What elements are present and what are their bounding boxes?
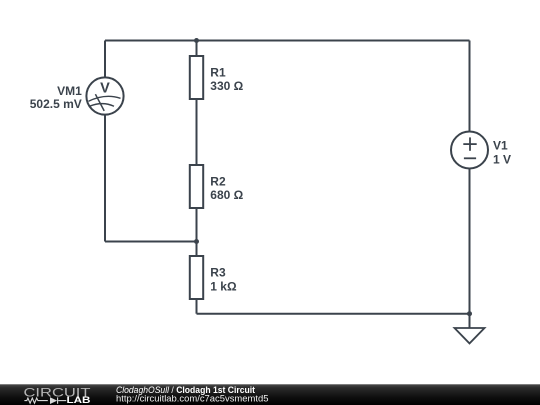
wire bottom-left horizontal to node B	[105, 241, 197, 243]
CircuitLab logo diode triangle	[50, 397, 57, 404]
wire bottom horizontal	[197, 313, 470, 315]
svg-text:330 Ω: 330 Ω	[210, 79, 243, 93]
resistor R3	[190, 256, 203, 299]
node GND junction dot bottom right	[467, 311, 472, 316]
svg-text:R1: R1	[210, 66, 226, 80]
svg-text:680 Ω: 680 Ω	[210, 188, 243, 202]
svg-text:R2: R2	[210, 175, 226, 189]
svg-text:http://circuitlab.com/c7ac5vsm: http://circuitlab.com/c7ac5vsmemtd5	[116, 393, 269, 404]
voltage source V1	[451, 132, 488, 169]
CircuitLab logo resistor-diode line	[24, 397, 66, 403]
svg-text:R3: R3	[210, 266, 226, 280]
svg-text:LAB: LAB	[67, 395, 91, 405]
resistor R1	[190, 56, 203, 99]
svg-text:VM1: VM1	[57, 84, 82, 98]
svg-text:V: V	[100, 81, 110, 97]
svg-text:V1: V1	[493, 138, 508, 152]
wire VM1 top vertical	[104, 41, 106, 78]
ground	[455, 328, 485, 343]
wire V1 top vertical	[469, 41, 471, 132]
node A junction dot top	[194, 38, 199, 43]
wire R1 to R2	[196, 99, 198, 165]
footer bar	[0, 384, 540, 405]
wire R3 bottom vertical	[196, 299, 198, 314]
svg-text:1 kΩ: 1 kΩ	[210, 279, 237, 293]
wire V1 bottom vertical to ground	[469, 168, 471, 328]
resistor R2	[190, 165, 203, 208]
voltmeter VM1	[86, 77, 123, 114]
wire R1 top stub	[196, 41, 198, 57]
wire R2 to R3	[196, 208, 198, 256]
node B junction dot middle	[194, 239, 199, 244]
wire VM1 bottom vertical	[104, 115, 106, 242]
wire top horizontal	[105, 40, 470, 42]
svg-text:1 V: 1 V	[493, 152, 511, 166]
svg-text:502.5 mV: 502.5 mV	[30, 97, 82, 111]
